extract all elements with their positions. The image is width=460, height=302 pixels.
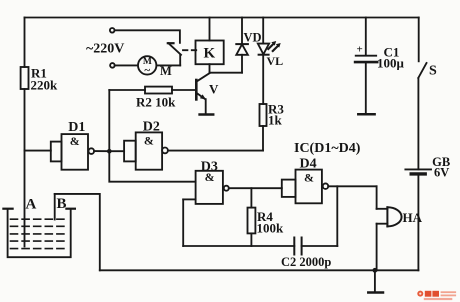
svg-text:C2 2000p: C2 2000p bbox=[281, 255, 331, 269]
svg-text:M: M bbox=[160, 64, 172, 78]
svg-text:220k: 220k bbox=[31, 78, 59, 93]
svg-text:D4: D4 bbox=[300, 157, 317, 172]
svg-text:&: & bbox=[205, 170, 215, 184]
svg-text:D1: D1 bbox=[68, 120, 85, 135]
svg-text:V: V bbox=[209, 82, 219, 97]
svg-text:VL: VL bbox=[267, 54, 284, 68]
svg-text:D2: D2 bbox=[143, 120, 160, 135]
svg-text:&: & bbox=[304, 171, 314, 185]
svg-text:A: A bbox=[26, 197, 37, 213]
svg-text:6V: 6V bbox=[434, 166, 449, 180]
svg-text:IC(D1~D4): IC(D1~D4) bbox=[294, 141, 361, 156]
svg-text:&: & bbox=[70, 134, 80, 148]
svg-text:+: + bbox=[357, 44, 363, 56]
svg-text:B: B bbox=[57, 196, 67, 212]
svg-text:1k: 1k bbox=[268, 113, 283, 128]
svg-text:VD: VD bbox=[244, 31, 262, 45]
svg-text:&: & bbox=[144, 134, 154, 148]
svg-text:S: S bbox=[429, 64, 437, 79]
svg-text:100μ: 100μ bbox=[377, 56, 405, 71]
svg-text:R2 10k: R2 10k bbox=[136, 95, 176, 110]
svg-text:~: ~ bbox=[144, 65, 150, 77]
svg-text:~220V: ~220V bbox=[86, 42, 124, 57]
svg-text:K: K bbox=[203, 46, 215, 62]
svg-text:HA: HA bbox=[403, 210, 423, 225]
svg-text:100k: 100k bbox=[257, 221, 285, 236]
